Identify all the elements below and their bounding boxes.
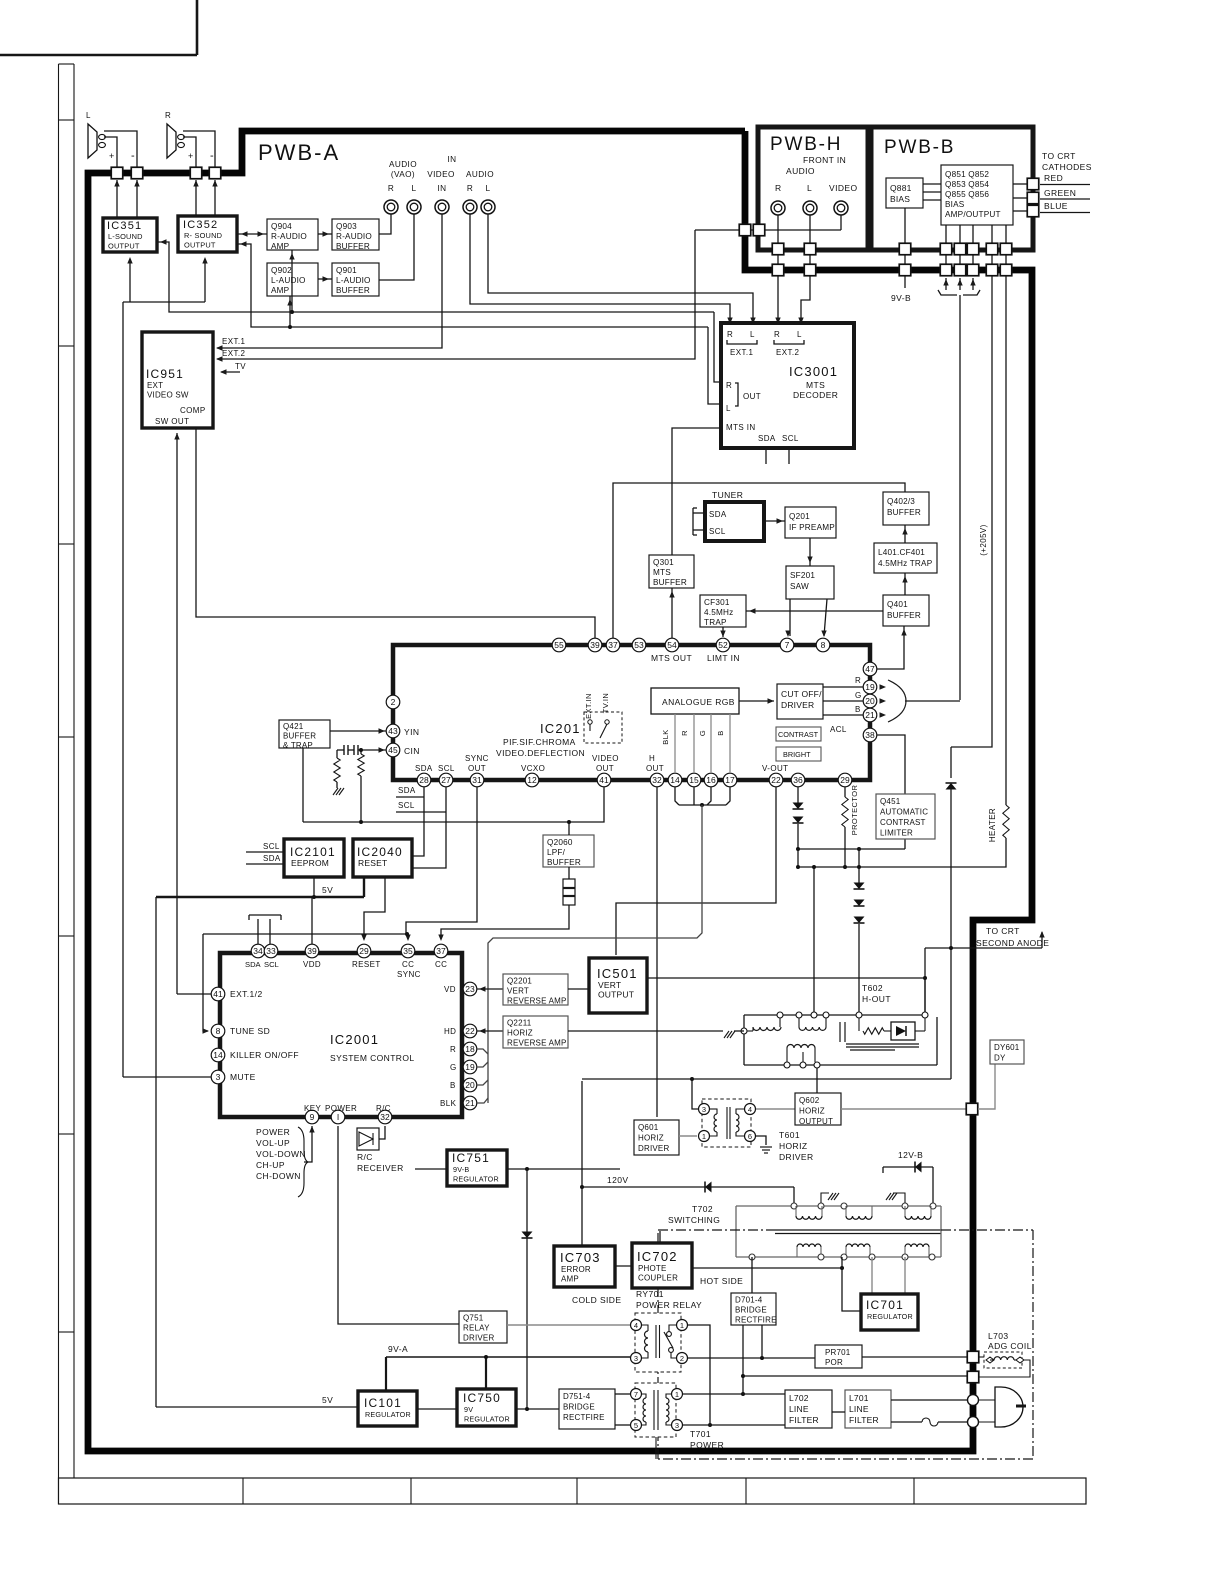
wire D701 bottom right [761,1325,763,1358]
svg-text:6: 6 [748,1132,752,1141]
wire pin37 riser to Q402/3 [613,483,905,640]
svg-text:53: 53 [634,640,644,650]
IC2001 left pins [211,987,225,1001]
5V rail [156,896,364,898]
svg-text:39: 39 [590,640,600,650]
resistor to ground at CIN [336,750,338,758]
PR701 POR box [815,1345,862,1368]
svg-text:BIAS: BIAS [890,194,910,204]
svg-text:DRIVER: DRIVER [463,1334,494,1343]
svg-text:9V-A: 9V-A [388,1344,408,1354]
wire SDA from pin28 [412,787,424,856]
svg-text:-: - [210,150,214,162]
svg-text:L401.CF401: L401.CF401 [878,548,925,557]
svg-text:14: 14 [670,775,680,785]
svg-text:CATHODES: CATHODES [1042,162,1092,172]
T601 pin6 ground [756,1136,766,1145]
svg-text:TO CRT: TO CRT [1042,151,1076,161]
svg-text:SCL: SCL [264,960,279,969]
connector squares speakers [111,167,123,179]
svg-text:34: 34 [253,946,263,956]
svg-text:OUTPUT: OUTPUT [108,242,140,251]
svg-text:BRIGHT: BRIGHT [783,750,811,759]
IC3001 MTS decoder [721,323,854,448]
svg-text:POWER RELAY: POWER RELAY [636,1300,702,1310]
svg-text:120V: 120V [607,1175,628,1185]
svg-text:BUFFER: BUFFER [336,286,370,295]
svg-text:EXT.2: EXT.2 [222,349,245,358]
svg-text:4: 4 [634,1321,638,1330]
svg-text:Q881: Q881 [890,183,912,193]
wire SF201 to pin7 [789,599,791,636]
wire pin38 ACL [877,735,905,849]
svg-text:IC703: IC703 [560,1250,601,1265]
svg-text:IC2001: IC2001 [330,1032,379,1047]
svg-text:7: 7 [785,640,790,650]
L703 return wire [979,1360,1030,1377]
svg-text:AUDIO: AUDIO [389,160,417,169]
svg-text:IC750: IC750 [463,1391,501,1405]
IC702 photo coupler [632,1243,692,1288]
svg-text:BUFFER: BUFFER [887,508,921,517]
svg-text:L-AUDIO: L-AUDIO [336,276,371,285]
wire IC702 top stub [659,1231,661,1243]
svg-text:TO CRT: TO CRT [986,926,1020,936]
SF201 SAW filter [786,566,834,599]
connector square GREEN [1027,192,1039,204]
wire IC703 feed vertical [581,1081,583,1246]
svg-text:28: 28 [419,775,429,785]
wire 9V-B from Q881 [904,208,906,288]
svg-text:SDA: SDA [398,786,416,795]
svg-text:Q2201: Q2201 [507,977,532,986]
Q2060 LPF buffer [543,835,594,867]
svg-text:IF PREAMP: IF PREAMP [789,523,835,532]
diode chain down to flyback [858,849,860,883]
svg-text:IC351: IC351 [107,220,142,232]
wire Q2201 to IC501 [568,988,589,990]
svg-text:3: 3 [634,1354,638,1363]
T602 primary coil 2 [798,1018,800,1027]
hot dc return line [743,1375,967,1377]
svg-text:POWER: POWER [690,1440,724,1450]
transistor Q902 L-audio amp [267,263,318,296]
wire SF201 to pin8 [824,599,827,636]
T602 hout resistor diode [858,1018,860,1031]
svg-text:19: 19 [865,682,875,692]
wire keys to pin9 [304,1126,312,1162]
svg-text:VD: VD [444,985,456,994]
svg-text:REGULATOR: REGULATOR [365,1410,411,1419]
wire 9V-A to IC101 [385,1357,387,1390]
wire T701 pin1 to L702 [683,1393,785,1395]
svg-text:PWB-H: PWB-H [770,134,842,155]
svg-text:AMP: AMP [561,1275,579,1284]
wire audio R in to IC3001 [470,214,730,320]
connector squares Q851 outputs row1 [940,243,952,255]
svg-text:5V: 5V [322,1395,333,1405]
wire L701 upper to plug [891,1399,967,1401]
svg-text:KILLER ON/OFF: KILLER ON/OFF [230,1050,299,1060]
IC2040 reset [353,839,412,877]
svg-text:Q902: Q902 [271,266,292,275]
svg-text:AMP: AMP [271,286,290,295]
svg-text:Q421: Q421 [283,722,304,731]
svg-text:REVERSE AMP: REVERSE AMP [507,1039,567,1048]
svg-text:SCL: SCL [398,801,415,810]
IC351 L-sound output [103,218,157,252]
svg-text:T601: T601 [779,1130,800,1140]
svg-text:R-AUDIO: R-AUDIO [336,232,372,241]
wire T702 to IC701 left [842,1257,861,1311]
svg-text:3: 3 [702,1105,706,1114]
svg-text:LIMITER: LIMITER [880,829,913,838]
svg-text:BUFFER: BUFFER [547,858,581,867]
svg-text:14: 14 [213,1050,223,1060]
hot dc line to 120v area [582,1078,951,1080]
svg-text:OUT: OUT [646,764,664,773]
svg-text:L703: L703 [988,1331,1009,1341]
svg-text:L-AUDIO: L-AUDIO [271,276,306,285]
svg-text:GREEN: GREEN [1044,188,1076,198]
svg-text:DRIVER: DRIVER [779,1152,814,1162]
svg-text:HORIZ: HORIZ [779,1141,807,1151]
svg-text:OUT: OUT [596,764,614,773]
IC2001 bottom pins [305,1110,319,1124]
wire IC352 bottom to mute bus [204,259,206,302]
wire Q601 to T601 pin1 [679,1135,697,1137]
T602 rail junction circles [777,1012,783,1018]
svg-text:CIN: CIN [404,746,420,756]
svg-text:R/C: R/C [376,1104,391,1113]
svg-text:Q2060: Q2060 [547,838,573,847]
connector squares 9V-B [899,243,911,255]
svg-text:2: 2 [391,697,396,707]
T702 secondary coils [796,1247,798,1257]
svg-text:IN: IN [438,184,447,193]
wire CF301 to pin52 [722,627,724,637]
svg-text:KEY: KEY [304,1104,321,1113]
front audio R jack [771,201,785,215]
L701 line filter [845,1390,891,1428]
wire T601 pin4 to Q602 [756,1108,795,1110]
transistor Q904 R-audio amp [267,219,318,250]
svg-text:D751-4: D751-4 [563,1392,591,1401]
svg-text:L: L [86,111,91,120]
svg-text:B: B [855,705,861,714]
tuner block [705,502,764,541]
svg-text:EXT: EXT [147,381,163,390]
wire pin54 to Q301 [671,588,673,640]
RY701 dashed box [635,1313,681,1372]
svg-text:LIMT IN: LIMT IN [707,653,740,663]
Q2201 vert reverse amp [503,974,568,1005]
svg-text:22: 22 [465,1026,475,1036]
wires speaker feed from IC352 [195,180,197,216]
svg-text:38: 38 [865,730,875,740]
wire IC703 to IC702 [615,1265,632,1267]
svg-text:COMP: COMP [180,406,206,415]
T701 coils [642,1394,646,1398]
svg-text:V-OUT: V-OUT [762,764,788,773]
connector squares front audio L [804,243,816,255]
svg-text:19: 19 [465,1062,475,1072]
svg-text:IC701: IC701 [866,1298,904,1312]
svg-text:45: 45 [388,745,398,755]
connector squares L703 [967,1351,979,1363]
svg-text:41: 41 [599,775,609,785]
svg-text:ERROR: ERROR [561,1265,591,1274]
svg-text:32: 32 [380,1112,390,1122]
T702 core [775,1229,941,1231]
svg-text:BLK: BLK [661,729,670,744]
wire pin22 v-out to IC501 [616,787,776,955]
arrows RGB drive up to PWB-B [945,278,947,290]
svg-text:BUFFER: BUFFER [283,732,316,741]
svg-text:CONTRAST: CONTRAST [778,730,819,739]
svg-text:OUTPUT: OUTPUT [184,241,216,250]
wire tune sd to pin8 [203,934,208,1031]
wire receiver to pin32 [379,1126,385,1139]
svg-text:12: 12 [527,775,537,785]
svg-text:CH-UP: CH-UP [256,1160,285,1170]
arrow HD into pin22 [477,1030,503,1032]
svg-text:-: - [131,150,135,162]
T702 top rail circles [791,1203,797,1209]
svg-text:9V-B: 9V-B [453,1165,469,1174]
D751-4 bridge rectifier [559,1389,615,1429]
wire 120V to T702 [793,1187,795,1203]
front audio L jack [803,201,817,215]
wire relay pin3 from 9V-A [629,1357,631,1359]
front video jack [834,201,848,215]
svg-text:SYNC: SYNC [397,970,421,979]
T702 ground 2 [893,1193,905,1203]
svg-text:PHOTE: PHOTE [638,1264,667,1273]
IC3001 ext2 bracket [774,340,804,344]
PWB-H board outline [758,127,868,250]
analogue RGB box [651,688,739,714]
IC201 right pins [863,662,877,676]
transistor Q881 bias [886,178,923,208]
wire Q201 to SF201 [809,538,811,566]
svg-text:SW OUT: SW OUT [155,417,189,426]
wire IC750 output to D751 [516,1408,559,1410]
svg-text:COLD SIDE: COLD SIDE [572,1295,621,1305]
resonator below Q2060 [568,867,570,879]
svg-text:MTS OUT: MTS OUT [651,653,692,663]
to crt second anode tap [925,947,1042,949]
svg-text:(VAO): (VAO) [391,170,415,179]
5V long vertical to IC101 [155,897,157,1407]
svg-text:AUDIO: AUDIO [466,170,494,179]
L401 CF401 trap [874,543,937,573]
wire PR701 to connector [862,1356,967,1358]
svg-text:L: L [807,183,812,193]
acl junction line [798,848,905,850]
T602 tertiary coil [787,1045,815,1049]
svg-text:& TRAP: & TRAP [283,741,313,750]
svg-text:AUDIO: AUDIO [786,166,815,176]
wire D701 bottom left [742,1325,744,1394]
wire Q904 input from audio line [291,250,293,312]
svg-text:L: L [412,184,417,193]
AC plug [978,1399,995,1401]
Q751 relay driver [459,1311,507,1343]
svg-text:FILTER: FILTER [849,1415,879,1425]
svg-text:1: 1 [702,1132,706,1141]
wire flyback mid tap riser [813,867,815,1015]
arrow VD into pin23 [477,988,503,990]
wire IC751 output [507,1168,620,1170]
wire 9V-A to IC750 [485,1357,487,1389]
wire 205V diode down [950,747,952,778]
svg-text:5V: 5V [322,885,333,895]
Q601 horiz driver [634,1120,679,1155]
svg-text:3: 3 [216,1072,221,1082]
svg-text:27: 27 [441,775,451,785]
svg-text:(+205V): (+205V) [979,524,988,555]
svg-text:SYNC: SYNC [465,754,489,763]
contrast box [776,727,821,741]
T702 top rail [736,1205,941,1207]
wire analogue rgb to cutoff [739,700,774,702]
svg-text:R: R [467,184,473,193]
svg-text:EXT.IN: EXT.IN [584,693,593,719]
svg-text:54: 54 [667,640,677,650]
svg-text:41: 41 [213,989,223,999]
svg-text:EXT.1/2: EXT.1/2 [230,989,263,999]
transistor Q901 L-audio buffer [332,263,379,296]
svg-text:TV.IN: TV.IN [601,693,610,713]
arrow front audio L into IC3001 [798,318,803,325]
svg-text:SCL: SCL [263,842,280,851]
svg-text:BRIDGE: BRIDGE [563,1403,595,1412]
svg-text:LINE: LINE [789,1404,809,1414]
svg-text:R: R [450,1045,456,1054]
svg-text:MTS IN: MTS IN [726,423,756,432]
svg-text:BUFFER: BUFFER [336,242,370,251]
svg-text:IC3001: IC3001 [789,364,838,379]
wire IC501 output to flyback [647,977,925,979]
tuner SDA SCL bracket [693,512,705,514]
wire pin32 h-out down [656,787,658,1117]
svg-text:VIDEO.DEFLECTION: VIDEO.DEFLECTION [496,748,585,758]
R/C receiver [357,1128,379,1150]
svg-text:L: L [486,184,491,193]
SAW IN bracket label [781,653,830,659]
svg-text:MTS: MTS [653,568,671,577]
transistor Q201 IF preamp [785,507,836,538]
IC951 SW pin wire from IC2001 EXT.1/2 [176,433,178,994]
svg-text:HOT SIDE: HOT SIDE [700,1276,743,1286]
wire L401 to Q402/3 [904,525,906,543]
DY601 deflection yoke box [990,1040,1024,1064]
wires analogue rgb inputs from pins 14-17 [674,714,676,773]
wires RGB pins to bus [477,1049,488,1054]
cut off driver box [777,684,823,719]
svg-text:VIDEO: VIDEO [427,170,454,179]
audio VAO R jack [384,200,398,214]
wire tune sync line [203,934,408,939]
wire pin47 to Q401 [877,626,904,669]
wire MTS IN from Q301 [672,428,721,555]
svg-text:MTS: MTS [806,380,825,390]
page frame corner top-left [0,54,197,57]
svg-text:R: R [165,111,171,120]
T601 transformer coils [714,1114,717,1132]
svg-text:20: 20 [865,696,875,706]
IC201 internal input switch [584,712,622,743]
svg-text:Q401: Q401 [887,600,908,609]
svg-text:I: I [337,1112,339,1122]
wire IC3001 L out [708,327,721,404]
svg-text:TUNE SD: TUNE SD [230,1026,270,1036]
wire R-audio line to IC352 [237,244,708,327]
svg-text:EXT.1: EXT.1 [222,337,245,346]
wire front video to PWB-A [840,215,842,230]
wire D701 top to T702 [751,1257,753,1293]
svg-text:HORIZ: HORIZ [799,1107,825,1116]
svg-text:HORIZ: HORIZ [507,1029,533,1038]
svg-text:DRIVER: DRIVER [781,700,814,710]
svg-text:9V: 9V [464,1405,473,1414]
connector square PWB-H left video [753,224,765,236]
svg-text:IC951: IC951 [146,367,184,381]
T702 ground 1 [821,1193,829,1203]
svg-text:CUT OFF/: CUT OFF/ [781,689,822,699]
T702 primary coils [795,1206,797,1216]
svg-text:CH-DOWN: CH-DOWN [256,1171,301,1181]
svg-text:16: 16 [706,775,716,785]
IC750 9V regulator [457,1389,516,1426]
wire Q902 to Q901 [318,278,332,280]
PWB-A board outline [88,131,1032,1451]
svg-text:AUTOMATIC: AUTOMATIC [880,808,928,817]
T602 bottom rail circles [784,1062,790,1068]
svg-text:G: G [450,1063,457,1072]
wire front video to IC951 EXT.2 [217,230,695,359]
svg-text:+: + [109,151,115,161]
svg-text:VOL-DOWN: VOL-DOWN [256,1149,306,1159]
T602 top rail [744,1014,925,1016]
svg-text:Q2211: Q2211 [507,1019,532,1028]
svg-text:R: R [726,381,732,390]
connector square BLUE [1027,205,1039,217]
svg-text:IC2040: IC2040 [357,845,403,859]
svg-text:POWER: POWER [256,1127,290,1137]
svg-text:RESET: RESET [352,960,381,969]
T701 core [653,1390,655,1430]
svg-text:21: 21 [865,710,875,720]
IC3001 out bracket [735,383,738,406]
svg-text:FILTER: FILTER [789,1415,819,1425]
svg-text:BRIDGE: BRIDGE [735,1306,767,1315]
svg-text:SDA: SDA [263,854,281,863]
heater wire [1005,276,1007,805]
brace RGB drive converge [938,290,957,295]
svg-text:37: 37 [608,640,618,650]
svg-text:PR701: PR701 [825,1348,851,1357]
svg-text:R- SOUND: R- SOUND [184,231,222,240]
svg-text:RED: RED [1044,173,1063,183]
svg-text:L701: L701 [849,1393,869,1403]
wire IC101 to IC750 [417,1408,457,1410]
svg-text:33: 33 [266,946,276,956]
svg-text:SAW: SAW [790,582,809,591]
IC703 error amp [554,1246,615,1287]
IC2001 right pins [463,982,477,996]
